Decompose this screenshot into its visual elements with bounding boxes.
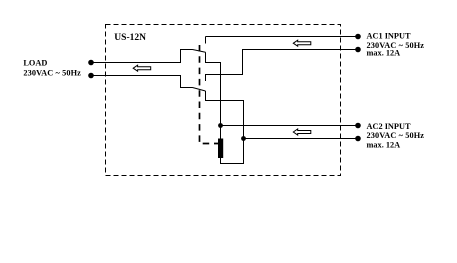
relay coil K1 bbox=[218, 139, 223, 159]
wire AC1 line 2 to contact K2 NO stub bbox=[206, 50, 359, 82]
contact K1 blade bbox=[193, 50, 206, 53]
arrow AC2 flow bbox=[293, 129, 311, 135]
wire AC2 line 2 from node B bbox=[244, 138, 359, 140]
terminal AC1 2 bbox=[355, 47, 361, 53]
node A junction dot bbox=[218, 123, 223, 128]
wire K1 NC throw to coil top bbox=[206, 52, 221, 138]
terminal AC1 1 bbox=[355, 34, 361, 40]
wire K2 NC throw to node B bbox=[206, 91, 244, 139]
node B junction dot bbox=[241, 136, 246, 141]
svg-text:AC2 INPUT: AC2 INPUT bbox=[367, 122, 411, 131]
contact K2 blade bbox=[193, 88, 206, 92]
terminal AC2 2 bbox=[355, 136, 361, 142]
enclosure dashed box bbox=[106, 25, 341, 176]
terminal LOAD 1 bbox=[88, 60, 94, 66]
wire AC2 line 1 from node A bbox=[221, 125, 359, 127]
wire LOAD line 1 to contact K1 common bbox=[91, 50, 193, 63]
svg-text:max. 12A: max. 12A bbox=[367, 49, 401, 58]
mechanical linkage dashed bbox=[200, 45, 219, 144]
terminal AC2 1 bbox=[355, 123, 361, 129]
svg-text:LOAD: LOAD bbox=[23, 58, 47, 67]
arrow LOAD flow bbox=[133, 65, 151, 71]
wire LOAD line 2 to contact K2 common bbox=[91, 76, 193, 88]
terminal LOAD 2 bbox=[88, 73, 94, 79]
wire K1 NO stub bbox=[205, 37, 207, 44]
svg-text:max. 12A: max. 12A bbox=[367, 141, 401, 150]
svg-text:230VAC ~ 50Hz: 230VAC ~ 50Hz bbox=[23, 68, 81, 77]
wire AC1 line 1 bbox=[206, 36, 359, 38]
svg-text:US-12N: US-12N bbox=[114, 33, 146, 43]
svg-text:230VAC ~ 50Hz: 230VAC ~ 50Hz bbox=[367, 131, 425, 140]
arrow AC1 flow bbox=[293, 40, 311, 46]
wire coil return loop bbox=[221, 139, 244, 164]
svg-text:AC1 INPUT: AC1 INPUT bbox=[367, 32, 411, 41]
